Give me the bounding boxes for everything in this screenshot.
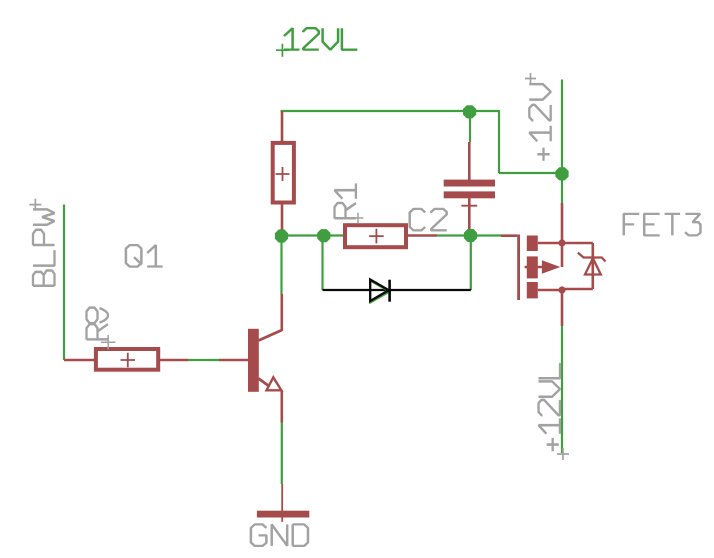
resistor R1 right pin (407, 234, 437, 237)
capacitor C2 bottom plate (444, 191, 495, 198)
mosfet FET3 channel segment 2 (527, 256, 538, 278)
label R9 origin cross (101, 335, 115, 349)
net label +12VL cross on wire end (557, 448, 569, 460)
wire node D to R1 left pin (324, 234, 344, 236)
resistor R? vertical body (273, 143, 294, 203)
junction node A (463, 105, 476, 118)
mosfet FET3 drain junction dot (558, 239, 565, 246)
transistor Q1 emitter diagonal (259, 379, 270, 387)
label Q1 (126, 245, 163, 267)
transistor Q1 base pin (219, 359, 248, 362)
wire node C down to Q1 collector (280, 243, 282, 294)
wire node B down to FET drain pin (561, 173, 563, 203)
resistor R1 body (345, 225, 406, 247)
wire +12V stub down to node B (561, 80, 563, 174)
wire node E to FET gate pin (471, 234, 502, 236)
label R1 origin cross (353, 213, 364, 224)
resistor R9 body (96, 349, 158, 370)
wire Q1 emitter to GND segment (281, 423, 283, 485)
wire R1 right pin to node E (437, 234, 471, 236)
net label +12VL (right bottom) (539, 363, 561, 451)
resistor R1 value cross (369, 229, 384, 244)
net label +12V (right top) (529, 84, 551, 161)
mosfet FET3 body diode top link (562, 242, 593, 245)
capacitor C2 top pin (468, 142, 471, 180)
mosfet FET3 drain pin (561, 203, 564, 243)
wire node E down to diode cathode (470, 242, 472, 290)
capacitor C2 top plate (444, 180, 495, 187)
mosfet FET3 zener triangle (585, 258, 601, 274)
resistor R9 left pin (64, 359, 95, 362)
label GND (251, 524, 308, 546)
wire diode horizontal (black) (323, 289, 471, 291)
transistor Q1 emitter arrow (267, 377, 282, 390)
resistor R? vertical bottom pin (281, 205, 284, 231)
diode D1 cathode bar (388, 280, 391, 302)
resistor R9 right pin (159, 359, 188, 362)
junction node C (275, 229, 288, 242)
mosfet FET3 body diode bottom link (562, 288, 593, 291)
mosfet FET3 source junction dot (558, 286, 565, 293)
wire top rail (281, 110, 500, 112)
mosfet FET3 zener cathode bar (578, 253, 606, 262)
mosfet FET3 gate pin (501, 234, 517, 237)
mosfet FET3 vertical drain-arrow link (561, 243, 564, 267)
ground GND bar (257, 511, 309, 518)
transistor Q1 collector pin (280, 294, 283, 331)
wire R9 to Q1 base segment (188, 359, 219, 361)
junction node B (555, 167, 568, 180)
supply label +12VL text (top) (284, 28, 357, 50)
transistor Q1 emitter pin (280, 391, 283, 423)
junction node D (317, 229, 330, 242)
capacitor C2 value cross (461, 198, 477, 214)
wire corner to node B (499, 172, 562, 174)
diode D1 triangle (370, 280, 389, 302)
wire left column below top resistor (280, 229, 282, 243)
resistor R? value cross (276, 167, 290, 181)
mosfet FET3 gate bar (517, 235, 520, 301)
resistor R? vertical top pin (281, 111, 284, 141)
junction node E (464, 229, 477, 242)
wire node D down to diode anode (321, 242, 323, 290)
supply label +12VL cross (top) (276, 44, 289, 57)
label FET3 (624, 214, 701, 236)
net label BLPW (33, 209, 55, 286)
label R9 (87, 308, 109, 340)
wire BLPW vertical (63, 205, 65, 361)
net label BLPW cross (29, 199, 41, 211)
mosfet FET3 source pin (561, 290, 564, 326)
mosfet FET3 bulk stub (525, 266, 543, 269)
wire middle row node C to node D (282, 234, 325, 236)
transistor Q1 collector diagonal (259, 330, 283, 341)
label R1 (335, 183, 357, 218)
mosfet FET3 drain stub (538, 242, 562, 245)
mosfet FET3 channel segment 1 (527, 236, 538, 252)
transistor Q1 base bar (248, 329, 259, 392)
wire FET source down to +12VL label (561, 326, 563, 453)
resistor R9 value cross (121, 353, 136, 368)
capacitor C2 bottom pin (468, 198, 471, 230)
wire corner down segment (498, 110, 500, 173)
mosfet FET3 channel segment 3 (527, 282, 538, 298)
mosfet FET3 source stub (538, 289, 562, 292)
ground GND stem (281, 484, 283, 522)
label C2 (410, 209, 447, 231)
diode D1 green under-stroke (370, 281, 389, 303)
wire junction A down to C2 top pin (469, 111, 471, 142)
mosfet FET3 bulk arrow (542, 260, 560, 273)
mosfet FET3 body diode vertical (591, 243, 594, 289)
net label +12V cross (525, 73, 536, 84)
